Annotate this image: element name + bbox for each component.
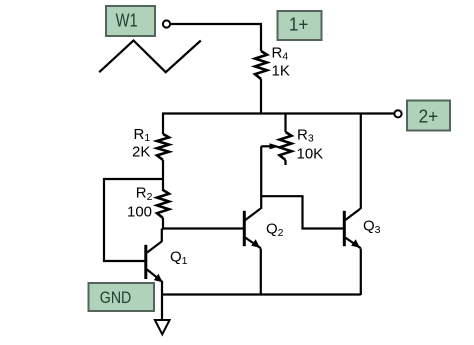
- supply bus wire: [162, 112, 394, 114]
- wire R1 bottom to node: [162, 160, 164, 191]
- resistor R1: [157, 134, 169, 160]
- svg-text:2K: 2K: [132, 144, 150, 161]
- transistor Q1: [146, 241, 163, 282]
- svg-text:2+: 2+: [419, 106, 439, 126]
- wire wiper to Q2 collector: [260, 146, 262, 209]
- terminal 2+: [394, 110, 401, 117]
- ground label GND: [89, 283, 155, 311]
- resistor R4: [255, 51, 267, 79]
- wire W1 to R4 top: [171, 24, 262, 51]
- wire node to feedback branch: [104, 178, 163, 180]
- svg-text:1+: 1+: [289, 15, 309, 35]
- wire collector node to Q2 base: [162, 227, 244, 229]
- wire R2 bottom to collector node: [162, 218, 164, 230]
- svg-text:W1: W1: [116, 10, 138, 30]
- wire Q1 collector up to R2 node: [161, 229, 163, 242]
- svg-text:1K: 1K: [272, 62, 290, 79]
- wire Q2 emitter down to bus: [260, 249, 262, 295]
- wire R4 bottom to supply bus: [260, 79, 262, 115]
- terminal W1 output: [163, 20, 170, 27]
- ground symbol: [155, 320, 170, 334]
- wire Q1 emitter down to ground: [161, 281, 163, 320]
- transistor Q2: [244, 209, 260, 249]
- resistor R2: [157, 190, 169, 218]
- emitter bus wire: [162, 293, 361, 295]
- transistor Q3: [344, 209, 361, 249]
- wire feedback branch down to Q1 base: [104, 178, 145, 261]
- wire Q3 collector up to bus: [360, 114, 362, 210]
- svg-text:100: 100: [127, 204, 152, 221]
- wire bus to R1: [162, 114, 164, 135]
- svg-text:10K: 10K: [297, 146, 324, 163]
- wire wiper node to Q3 base: [261, 196, 343, 228]
- resistor R3: [280, 114, 292, 165]
- R3 wiper arrow: [261, 143, 279, 149]
- scope label 2+: [407, 101, 450, 131]
- svg-text:GND: GND: [100, 288, 132, 307]
- scope label 1+: [278, 11, 322, 40]
- triangle waveform symbol: [99, 41, 201, 73]
- wire Q3 emitter down to bus: [360, 249, 362, 296]
- source label W1: [106, 6, 155, 36]
